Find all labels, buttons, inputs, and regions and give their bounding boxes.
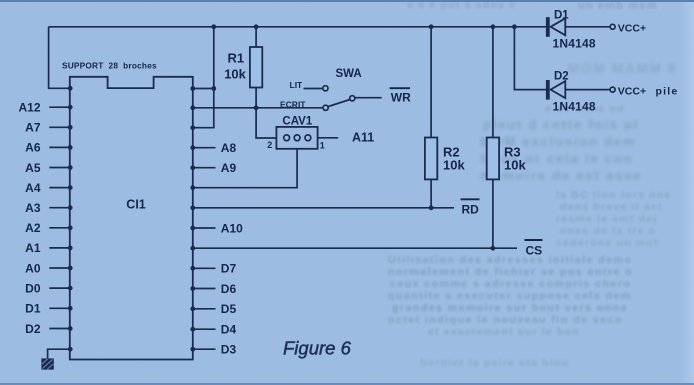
wire R2 bottom lead xyxy=(430,179,432,207)
svg-text:A10: A10 xyxy=(221,221,243,235)
svg-text:pile: pile xyxy=(656,86,679,98)
svg-text:octet indique le nouveau fin d: octet indique le nouveau fin de seco xyxy=(388,314,623,326)
svg-text:Nous ur cela le con: Nous ur cela le con xyxy=(480,151,633,166)
svg-text:D4: D4 xyxy=(221,323,237,337)
svg-text:10k: 10k xyxy=(504,158,526,173)
node CI1 left top (supply) xyxy=(68,86,73,91)
wire pin stub D6 xyxy=(193,288,216,290)
node CI1 right edge y=127.7 xyxy=(190,125,195,130)
svg-text:D2: D2 xyxy=(554,70,569,82)
node R2-RD junction xyxy=(429,205,434,210)
terminal circle VCC+ pile (D2) xyxy=(610,87,615,92)
svg-text:D5: D5 xyxy=(221,302,237,316)
svg-text:A2: A2 xyxy=(25,221,41,235)
svg-text:A11: A11 xyxy=(352,131,374,145)
svg-text:CAV1: CAV1 xyxy=(282,116,312,128)
node CI1 right edge y=228.0 xyxy=(190,226,195,231)
svg-text:A12: A12 xyxy=(18,101,40,115)
svg-text:Utilisation des adresses initi: Utilisation des adresses initiale demo xyxy=(388,254,632,266)
wire pin stub A9 xyxy=(193,167,216,169)
node CI1 left pin A7 xyxy=(68,125,73,130)
node CI1 left pin A5 xyxy=(68,165,73,170)
svg-text:CS: CS xyxy=(526,243,543,257)
wire tie CI1 right edge to drop xyxy=(193,88,214,90)
svg-text:D1: D1 xyxy=(554,10,569,22)
svg-text:la BC tion lors nne: la BC tion lors nne xyxy=(556,189,672,201)
svg-text:A4: A4 xyxy=(25,181,41,195)
node CI1 left pin A3 xyxy=(68,205,73,210)
switch SWA pivot xyxy=(350,96,355,101)
wire pin stub A2 xyxy=(49,227,70,229)
svg-text:A1: A1 xyxy=(25,241,41,255)
node bus-R1 junction xyxy=(254,24,259,29)
wire left drop from bus to CI1 pin 28 area xyxy=(49,27,71,89)
node bus-R2 junction xyxy=(429,24,434,29)
svg-text:R1: R1 xyxy=(228,51,245,66)
wire pin stub D5 xyxy=(193,308,216,310)
node CI1 left pin A4 xyxy=(68,185,73,190)
wire CS line xyxy=(193,247,517,249)
svg-text:normalement de fichier se pos: normalement de fichier se pos entre o xyxy=(388,266,633,278)
node bus-R3 junction xyxy=(491,24,496,29)
node CI1 left pin A0 xyxy=(68,266,73,271)
svg-text:dans breve il act: dans breve il act xyxy=(560,201,663,213)
svg-text:1N4148: 1N4148 xyxy=(553,99,596,113)
wire SWA pivot to WR xyxy=(355,97,381,99)
wire CAV1 middle pin down to CI1 (A11 pin) xyxy=(193,149,297,188)
node CI1 left pin D1 xyxy=(68,306,73,311)
wire pin stub A8 xyxy=(193,147,216,149)
wire D2 cathode to VCC+ pile xyxy=(565,89,610,91)
svg-text:VCC+: VCC+ xyxy=(618,23,646,35)
wire pin stub A0 xyxy=(49,267,70,269)
terminal circle VCC+ (D1) xyxy=(610,24,615,29)
node CI1 left pin A2 xyxy=(68,225,73,230)
svg-text:D1: D1 xyxy=(25,302,41,316)
wire pin stub D7 xyxy=(193,267,216,269)
svg-text:bornier la paire eta blou: bornier la paire eta blou xyxy=(420,357,569,369)
svg-text:MOM MAMM 8: MOM MAMM 8 xyxy=(568,61,678,76)
svg-text:nnes de la tre o: nnes de la tre o xyxy=(560,225,656,237)
svg-text:ceux comme s adresse compris c: ceux comme s adresse compris chero xyxy=(390,278,631,290)
node CI1 left pin A6 xyxy=(68,145,73,150)
svg-text:SUPPORT 28 broches: SUPPORT 28 broches xyxy=(62,61,157,71)
svg-text:grandes memoire sur bout vers: grandes memoire sur bout vers onne xyxy=(392,302,628,314)
svg-text:A9: A9 xyxy=(221,161,237,175)
wire D1 cathode to VCC+ xyxy=(565,26,610,28)
node CI1 left pin D0 xyxy=(68,286,73,291)
svg-text:cederons un mot: cederons un mot xyxy=(556,237,659,249)
node bus-D2 branch junction xyxy=(512,24,517,29)
node CI1 right edge y=329.2 xyxy=(190,327,195,332)
wire pin stub A1 xyxy=(49,247,70,249)
svg-text:WR: WR xyxy=(391,90,411,104)
node CI1 left ground pin xyxy=(68,347,73,352)
svg-text:1N4148: 1N4148 xyxy=(553,37,596,51)
svg-text:A7: A7 xyxy=(25,121,41,135)
wire R1 top lead xyxy=(255,27,257,47)
wire R3 bottom lead xyxy=(492,179,494,248)
switch SWA arm xyxy=(328,100,349,107)
node R1-ECRIT junction xyxy=(254,105,259,110)
node CI1 left pin D2 xyxy=(68,326,73,331)
svg-text:A5: A5 xyxy=(25,161,41,175)
wire R3 top lead xyxy=(492,27,494,138)
svg-text:A8: A8 xyxy=(221,141,237,155)
connector CAV1 body xyxy=(276,127,317,149)
svg-text:D6: D6 xyxy=(221,282,237,296)
wire branch from bus to D2 xyxy=(514,27,546,90)
node CI1 left pin A12 xyxy=(68,105,73,110)
wire pin stub A12 xyxy=(49,106,70,108)
CAV1 pin circle left xyxy=(284,135,290,141)
node CI1 right edge y=107.8 xyxy=(190,105,195,110)
node CI1 right edge y=147.7 xyxy=(190,145,195,150)
node CI1 right edge y=207.8 xyxy=(190,205,195,210)
svg-text:SWA: SWA xyxy=(336,68,362,80)
label RD with overline xyxy=(461,199,480,216)
svg-text:RD: RD xyxy=(462,203,480,217)
svg-text:pleut d cette fois pl: pleut d cette fois pl xyxy=(483,117,639,132)
svg-text:10k: 10k xyxy=(443,158,465,173)
wire pin stub A6 xyxy=(49,146,70,148)
wire pin stub A5 xyxy=(49,167,70,169)
svg-text:un emb mem: un emb mem xyxy=(578,0,658,12)
wire pin stub D3 xyxy=(193,348,216,350)
svg-text:Figure 6: Figure 6 xyxy=(283,338,352,359)
wire pin stub A4 xyxy=(49,187,70,189)
CAV1 pin circle middle xyxy=(294,135,300,141)
node CI1 left pin A1 xyxy=(68,246,73,251)
wire ground connection xyxy=(48,349,71,358)
svg-text:10k: 10k xyxy=(224,66,246,81)
wire pin stub D0 xyxy=(49,287,70,289)
svg-text:D7: D7 xyxy=(221,262,237,276)
CAV1 pin circle right xyxy=(305,135,311,141)
resistor R2 xyxy=(425,138,437,180)
resistor R1 xyxy=(250,47,262,88)
resistor R3 xyxy=(487,138,499,180)
node CI1 right edge y=268.3 xyxy=(190,266,195,271)
wire pin stub D2 xyxy=(49,328,70,330)
svg-text:et exactement sur le bon: et exactement sur le bon xyxy=(428,326,580,338)
svg-text:2: 2 xyxy=(267,140,272,150)
diode D1 xyxy=(546,17,565,37)
svg-text:e s e put s ados e: e s e put s ados e xyxy=(407,0,516,11)
node CI1 right edge y=167.7 xyxy=(190,165,195,170)
diode D2 xyxy=(546,80,565,100)
wire R2 top lead xyxy=(430,27,432,138)
svg-text:D2: D2 xyxy=(25,322,41,336)
svg-text:A6: A6 xyxy=(25,141,41,155)
svg-text:CI1: CI1 xyxy=(126,198,146,212)
svg-text:1: 1 xyxy=(320,140,325,150)
node CI1 right edge y=88.5 xyxy=(190,86,195,91)
wire pin stub A7 xyxy=(49,126,70,128)
svg-text:A0: A0 xyxy=(25,261,41,275)
ground symbol xyxy=(41,358,53,369)
svg-text:LIT: LIT xyxy=(290,80,304,90)
wire top supply bus xyxy=(49,26,547,28)
wire pin stub D4 xyxy=(193,328,216,330)
node CI1 right edge y=187.7 xyxy=(190,185,195,190)
node CI1 right edge y=248.2 xyxy=(190,246,195,251)
svg-text:VCC+: VCC+ xyxy=(618,85,646,97)
wire ECRIT line from CI1 to switch contact xyxy=(193,107,323,109)
wire CAV1 right pin to A11 xyxy=(318,137,339,139)
svg-text:A3: A3 xyxy=(25,201,41,215)
wire pin stub D1 xyxy=(49,307,70,309)
switch SWA LIT contact xyxy=(323,86,328,91)
node bus-tie junction xyxy=(211,24,216,29)
wire LIT contact stub xyxy=(304,88,323,90)
label CS with overline xyxy=(525,240,543,257)
node CI1 right edge y=349.2 xyxy=(190,347,195,352)
svg-text:D3: D3 xyxy=(221,343,237,357)
node CI1 right edge y=288.5 xyxy=(190,286,195,291)
svg-text:quantite a executer suppose ce: quantite a executer suppose cela dem xyxy=(388,290,632,302)
svg-text:resme le emt dej: resme le emt dej xyxy=(556,213,658,225)
label WR with overline xyxy=(390,88,412,104)
wire R1 bottom lead to CAV1 pin 2 xyxy=(256,88,276,139)
switch SWA ECRIT contact xyxy=(323,105,328,110)
node tie junction xyxy=(211,86,216,91)
wire right drop from bus to CI1 right edge xyxy=(193,27,213,128)
IC socket CI1 outline (SUPPORT 28 broches) xyxy=(70,77,193,360)
svg-text:ECRIT: ECRIT xyxy=(280,99,306,109)
node R3-CS junction xyxy=(491,246,496,251)
node CI1 right edge y=308.8 xyxy=(190,306,195,311)
wire pin stub A3 xyxy=(49,207,70,209)
wire pin stub A10 xyxy=(193,227,216,229)
svg-text:D0: D0 xyxy=(25,281,41,295)
wire RD line xyxy=(193,207,454,209)
